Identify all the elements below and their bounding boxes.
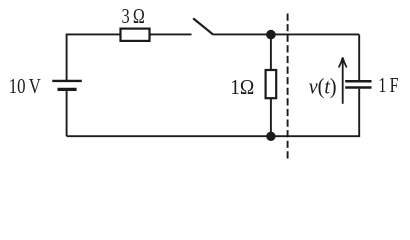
arrow for v(t): head bbox=[339, 57, 347, 67]
wire: right vertical down to capacitor top plate bbox=[358, 34, 360, 80]
wire: left vertical top (battery + to top-left corner, then top wire to resistor) bbox=[67, 34, 121, 80]
wire: switch pivot to top-right corner bbox=[213, 33, 359, 35]
battery V1 negative (short) plate bbox=[58, 88, 77, 91]
arrow for v(t): shaft bbox=[342, 58, 344, 104]
battery V1 positive (long) plate bbox=[52, 80, 82, 82]
capacitor C1 bottom plate bbox=[345, 86, 371, 89]
resistor R2 1-ohm box (vertical) bbox=[266, 70, 277, 98]
wire: resistor to switch left contact bbox=[150, 33, 192, 35]
wire: bottom-left corner up to battery negative plate bbox=[66, 91, 68, 136]
dashed boundary line bbox=[287, 14, 289, 160]
capacitor C1 top plate bbox=[345, 80, 371, 83]
node: bottom junction dot bbox=[266, 132, 275, 141]
wire: middle branch from top node to 1-ohm resistor bbox=[270, 35, 272, 70]
resistor R1 3-ohm box bbox=[121, 29, 150, 41]
svg-text:10 V: 10 V bbox=[9, 74, 41, 98]
wire: capacitor bottom plate down to bottom-right corner, bottom wire to left bbox=[67, 89, 360, 137]
svg-text:v(t): v(t) bbox=[309, 73, 337, 98]
wire: 1-ohm resistor to bottom node bbox=[270, 98, 272, 136]
node: top junction dot bbox=[266, 30, 276, 40]
svg-text:1 F: 1 F bbox=[378, 73, 398, 97]
svg-text:3 Ω: 3 Ω bbox=[122, 4, 145, 28]
switch S1 blade (open) bbox=[193, 18, 213, 34]
svg-text:1Ω: 1Ω bbox=[230, 75, 254, 99]
